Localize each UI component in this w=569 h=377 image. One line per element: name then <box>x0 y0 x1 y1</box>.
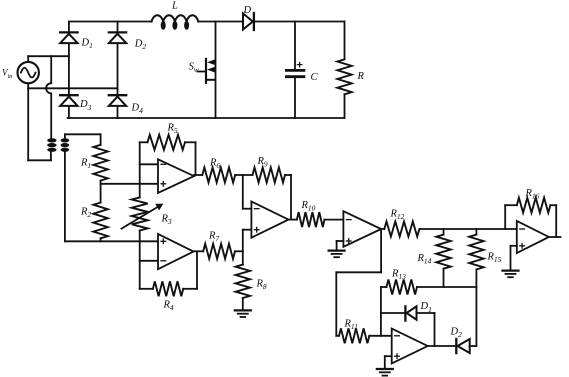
svg-text:L: L <box>171 0 178 11</box>
svg-text:D: D <box>243 5 252 16</box>
svg-text:R: R <box>357 71 365 82</box>
svg-text:C: C <box>311 72 319 83</box>
